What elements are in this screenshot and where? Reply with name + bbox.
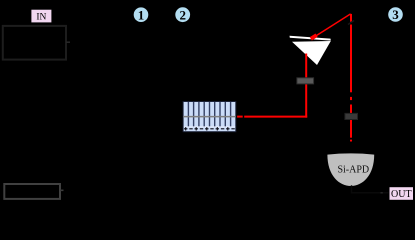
mirror tick bbox=[348, 21, 354, 25]
beam arrow at prism bbox=[311, 35, 317, 39]
node 3 bbox=[388, 7, 403, 22]
beam vertical right bbox=[350, 14, 352, 142]
node 2 bbox=[175, 7, 190, 22]
beam horizontal from modulator bbox=[237, 116, 243, 118]
wire from detector to OUT bbox=[352, 185, 390, 193]
svg-text:OUT: OUT bbox=[391, 189, 412, 200]
detector Si-APD bbox=[327, 153, 374, 186]
filter F1 bbox=[297, 78, 314, 84]
wire stub from electronics box bbox=[60, 189, 64, 191]
svg-text:3: 3 bbox=[392, 7, 399, 22]
beam line inside modulator bbox=[183, 116, 236, 118]
modulator crystal bbox=[183, 102, 236, 132]
svg-text:1: 1 bbox=[138, 7, 145, 22]
label IN bbox=[31, 9, 52, 23]
electrode bottom highlight bbox=[184, 126, 235, 128]
electrode polarity marks bbox=[184, 127, 235, 130]
laser box bbox=[3, 26, 66, 60]
label OUT bbox=[389, 187, 414, 201]
filter F2 bbox=[345, 113, 358, 119]
beam diagonal to mirror bbox=[312, 14, 351, 39]
prism body bbox=[292, 41, 331, 65]
beam vertical from prism bbox=[305, 54, 307, 118]
svg-text:2: 2 bbox=[179, 7, 186, 22]
prism top face bbox=[290, 36, 331, 41]
wire stub from laser box bbox=[66, 41, 70, 43]
electronics box bbox=[4, 184, 60, 199]
node 1 bbox=[134, 7, 149, 22]
svg-text:IN: IN bbox=[36, 12, 46, 22]
svg-text:Si-APD: Si-APD bbox=[337, 164, 369, 175]
